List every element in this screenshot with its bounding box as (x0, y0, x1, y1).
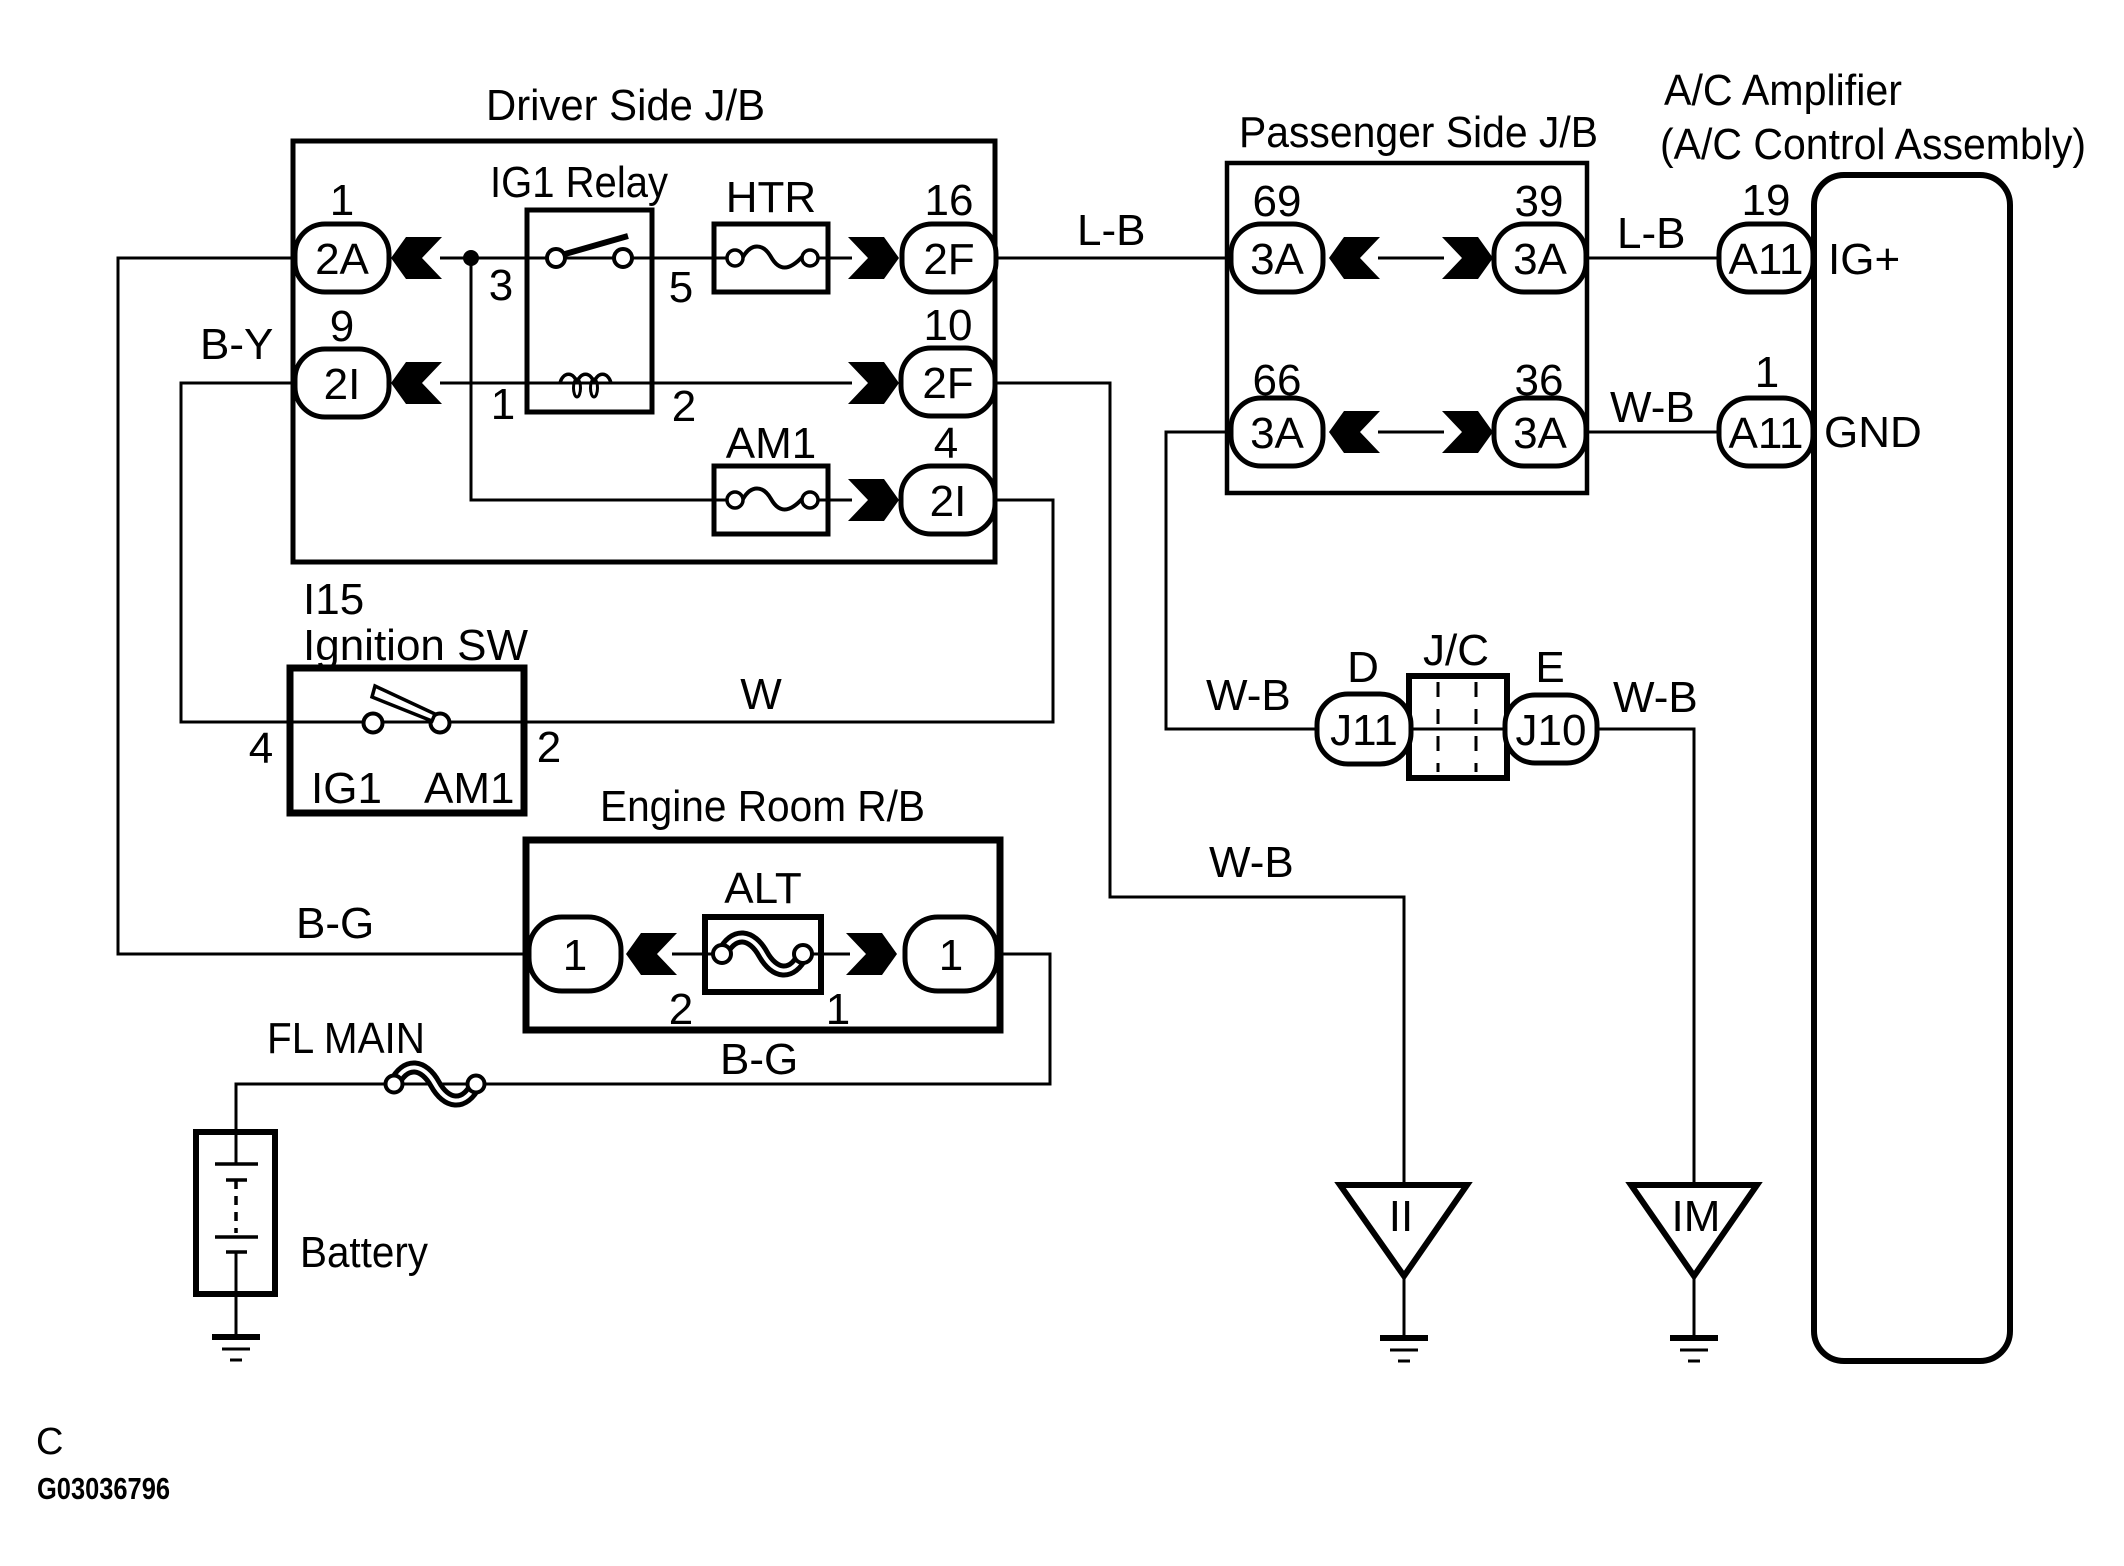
svg-text:3A: 3A (1513, 235, 1567, 284)
wire W from 2I(4) right side down to ignition AM1 wire (524, 500, 1053, 722)
svg-text:16: 16 (925, 176, 974, 225)
arrow left passenger row1 (1329, 237, 1380, 279)
svg-text:B-G: B-G (296, 899, 374, 948)
wire IM triangle to ground (1693, 1276, 1696, 1337)
svg-text:J11: J11 (1330, 706, 1398, 755)
svg-text:69: 69 (1253, 177, 1302, 226)
svg-text:I15: I15 (303, 575, 364, 624)
connector oval 3A pin 69 (1231, 224, 1323, 292)
fuse AM1 box (714, 466, 828, 534)
wire B-G left vertical from 2A to Engine Room R/B (118, 258, 531, 954)
arrow right passenger row1 (1442, 237, 1493, 279)
svg-text:66: 66 (1253, 356, 1302, 405)
svg-text:L-B: L-B (1077, 206, 1145, 255)
fuse AM1 element (727, 492, 743, 508)
svg-text:A11: A11 (1728, 235, 1803, 284)
wire ignition SW row (290, 721, 524, 724)
svg-text:E: E (1535, 643, 1564, 692)
connector oval 1 left (529, 917, 621, 991)
wire AM1 fuse to arrow (808, 499, 852, 502)
connector oval 3A pin 39 (1494, 224, 1586, 292)
svg-text:1: 1 (491, 380, 515, 429)
fuse HTR box (714, 224, 828, 292)
connector oval A11 pin 1 (1719, 398, 1813, 466)
svg-text:IG+: IG+ (1828, 235, 1900, 284)
svg-text:10: 10 (924, 301, 973, 350)
connector oval 3A pin 36 (1494, 398, 1586, 466)
fuse HTR element (727, 250, 743, 266)
svg-text:2I: 2I (930, 477, 967, 526)
connector oval 3A pin 66 (1231, 398, 1323, 466)
svg-text:HTR: HTR (726, 173, 816, 222)
svg-text:B-G: B-G (720, 1035, 798, 1084)
ground symbol under IM (1670, 1338, 1718, 1361)
Passenger Side J/B box (1227, 163, 1587, 493)
connector oval 2F pin 16 (902, 224, 996, 292)
svg-text:C: C (36, 1421, 63, 1463)
svg-text:Engine Room R/B: Engine Room R/B (600, 782, 925, 831)
svg-text:IG1: IG1 (311, 764, 382, 813)
svg-text:3A: 3A (1250, 409, 1304, 458)
svg-text:ALT: ALT (724, 864, 801, 913)
arrow right at 2F(16) (848, 237, 899, 279)
connector oval J10 (1505, 695, 1597, 763)
svg-text:5: 5 (669, 263, 693, 312)
Driver Side J/B box I15 (293, 141, 995, 562)
connector oval 2A pin 1 (295, 224, 389, 292)
svg-text:W: W (740, 670, 782, 719)
svg-text:J10: J10 (1516, 706, 1587, 755)
connector oval J11 (1317, 694, 1411, 764)
wire row1 inside Driver J/B from arrow to HTR fuse (440, 257, 737, 260)
svg-text:Ignition SW: Ignition SW (303, 621, 528, 670)
svg-text:39: 39 (1515, 177, 1564, 226)
wire L-B from 3A(39) to A11(19) (1585, 257, 1721, 260)
svg-text:W-B: W-B (1610, 383, 1695, 432)
arrow right at 2F(10) (848, 362, 899, 404)
Ignition SW box (290, 668, 524, 813)
connector oval 1 right (905, 917, 997, 991)
ignition switch lever outline (372, 686, 435, 721)
fusible link FL MAIN element (394, 1067, 476, 1100)
svg-text:II: II (1389, 1192, 1413, 1241)
wire between passenger arrows row2 (1378, 431, 1444, 434)
svg-text:1: 1 (563, 931, 587, 980)
wire Engine Room R/B internal right (801, 953, 850, 956)
relay coil (560, 374, 611, 383)
svg-text:1: 1 (330, 176, 354, 225)
svg-text:W-B: W-B (1206, 671, 1291, 720)
svg-text:FL MAIN: FL MAIN (267, 1014, 425, 1063)
svg-text:3A: 3A (1513, 409, 1567, 458)
svg-text:1: 1 (939, 931, 963, 980)
wire from 2F(10) down and right to II ground triangle (995, 383, 1404, 1185)
svg-text:G03036796: G03036796 (37, 1471, 170, 1506)
arrow right at 2I(4) (848, 479, 899, 521)
svg-text:A/C Amplifier: A/C Amplifier (1664, 66, 1902, 115)
relay IG1 box (527, 210, 652, 412)
wire HTR to arrow (808, 257, 852, 260)
svg-text:W-B: W-B (1613, 673, 1698, 722)
svg-text:B-Y: B-Y (200, 320, 273, 369)
wire Engine Room R/B internal left (672, 953, 724, 956)
svg-text:2: 2 (669, 985, 693, 1034)
svg-text:2: 2 (672, 382, 696, 431)
svg-text:IM: IM (1672, 1192, 1721, 1241)
ground symbol under II (1380, 1338, 1428, 1361)
svg-text:IG1 Relay: IG1 Relay (490, 158, 668, 207)
svg-text:Passenger Side J/B: Passenger Side J/B (1239, 108, 1598, 157)
svg-text:Battery: Battery (300, 1228, 428, 1277)
arrow left passenger row2 (1329, 411, 1380, 453)
svg-text:2: 2 (537, 723, 561, 772)
wire battery negative to ground (235, 1252, 238, 1336)
wire L-B from 2F(16) to Passenger J/B 3A(69) (995, 257, 1232, 260)
wire from Engine Room R/B right oval to FL MAIN and battery (236, 954, 1050, 1164)
junction connector J/C box (1409, 676, 1507, 778)
svg-text:W-B: W-B (1209, 838, 1294, 887)
wire W-B from 3A(36) to A11(1) (1585, 431, 1721, 434)
ignition switch contact circles (364, 714, 383, 733)
arrow right passenger row2 (1442, 411, 1493, 453)
J/C internal dashed lines (1437, 682, 1440, 772)
svg-text:36: 36 (1515, 356, 1564, 405)
ground triangle IM (1631, 1185, 1757, 1276)
svg-text:4: 4 (934, 419, 958, 468)
wire through J/C box (1409, 728, 1507, 731)
relay switch lever (565, 236, 628, 254)
relay switch contact circles (547, 249, 565, 267)
svg-text:AM1: AM1 (726, 419, 816, 468)
connector oval A11 pin 19 (1719, 224, 1813, 292)
svg-text:1: 1 (826, 985, 850, 1034)
arrow left at 2A (391, 237, 442, 279)
svg-text:3: 3 (489, 261, 513, 310)
ground battery (212, 1337, 260, 1360)
wire B-Y from 2I(9) down to Ignition SW pin 4 (181, 383, 296, 722)
arrow left in R/B (626, 933, 677, 975)
junction dot node (463, 250, 479, 266)
svg-text:Driver Side J/B: Driver Side J/B (486, 81, 765, 130)
battery cell plates (215, 1162, 258, 1166)
svg-text:L-B: L-B (1617, 209, 1685, 258)
wire between passenger arrows row1 (1378, 257, 1444, 260)
wire row2 from arrow through relay coil to arrow (440, 382, 852, 385)
Engine Room R/B box (526, 840, 1000, 1030)
svg-text:1: 1 (1755, 348, 1779, 397)
svg-text:4: 4 (249, 724, 273, 773)
connector oval 2F pin 10 (901, 348, 995, 416)
svg-text:J/C: J/C (1423, 626, 1489, 675)
fusible link ALT box (705, 917, 821, 992)
fusible link ALT element (722, 937, 803, 970)
arrow left at 2I(9) (391, 362, 442, 404)
svg-text:A11: A11 (1728, 409, 1803, 458)
svg-text:3A: 3A (1250, 235, 1304, 284)
wire II triangle to ground (1403, 1276, 1406, 1337)
wire from J10 down to IM ground triangle (1597, 729, 1694, 1185)
arrow right in R/B (846, 933, 897, 975)
A/C amplifier box (1814, 175, 2010, 1361)
svg-text:19: 19 (1742, 176, 1791, 225)
Battery box (196, 1132, 275, 1294)
wire junction drop from dot to AM1 row (471, 258, 737, 500)
svg-text:9: 9 (330, 302, 354, 351)
svg-text:2F: 2F (922, 359, 973, 408)
svg-text:(A/C Control Assembly): (A/C Control Assembly) (1660, 120, 2086, 169)
connector oval 2I pin 4 (901, 466, 995, 534)
svg-text:2I: 2I (324, 360, 361, 409)
svg-text:2F: 2F (923, 235, 974, 284)
svg-text:AM1: AM1 (424, 764, 514, 813)
svg-text:GND: GND (1824, 408, 1922, 457)
svg-text:D: D (1347, 643, 1379, 692)
svg-text:2A: 2A (315, 235, 369, 284)
connector oval 2I pin 9 (295, 349, 389, 417)
wire from 3A(66) down to J11 (1166, 432, 1317, 729)
ground triangle II (1340, 1185, 1467, 1276)
